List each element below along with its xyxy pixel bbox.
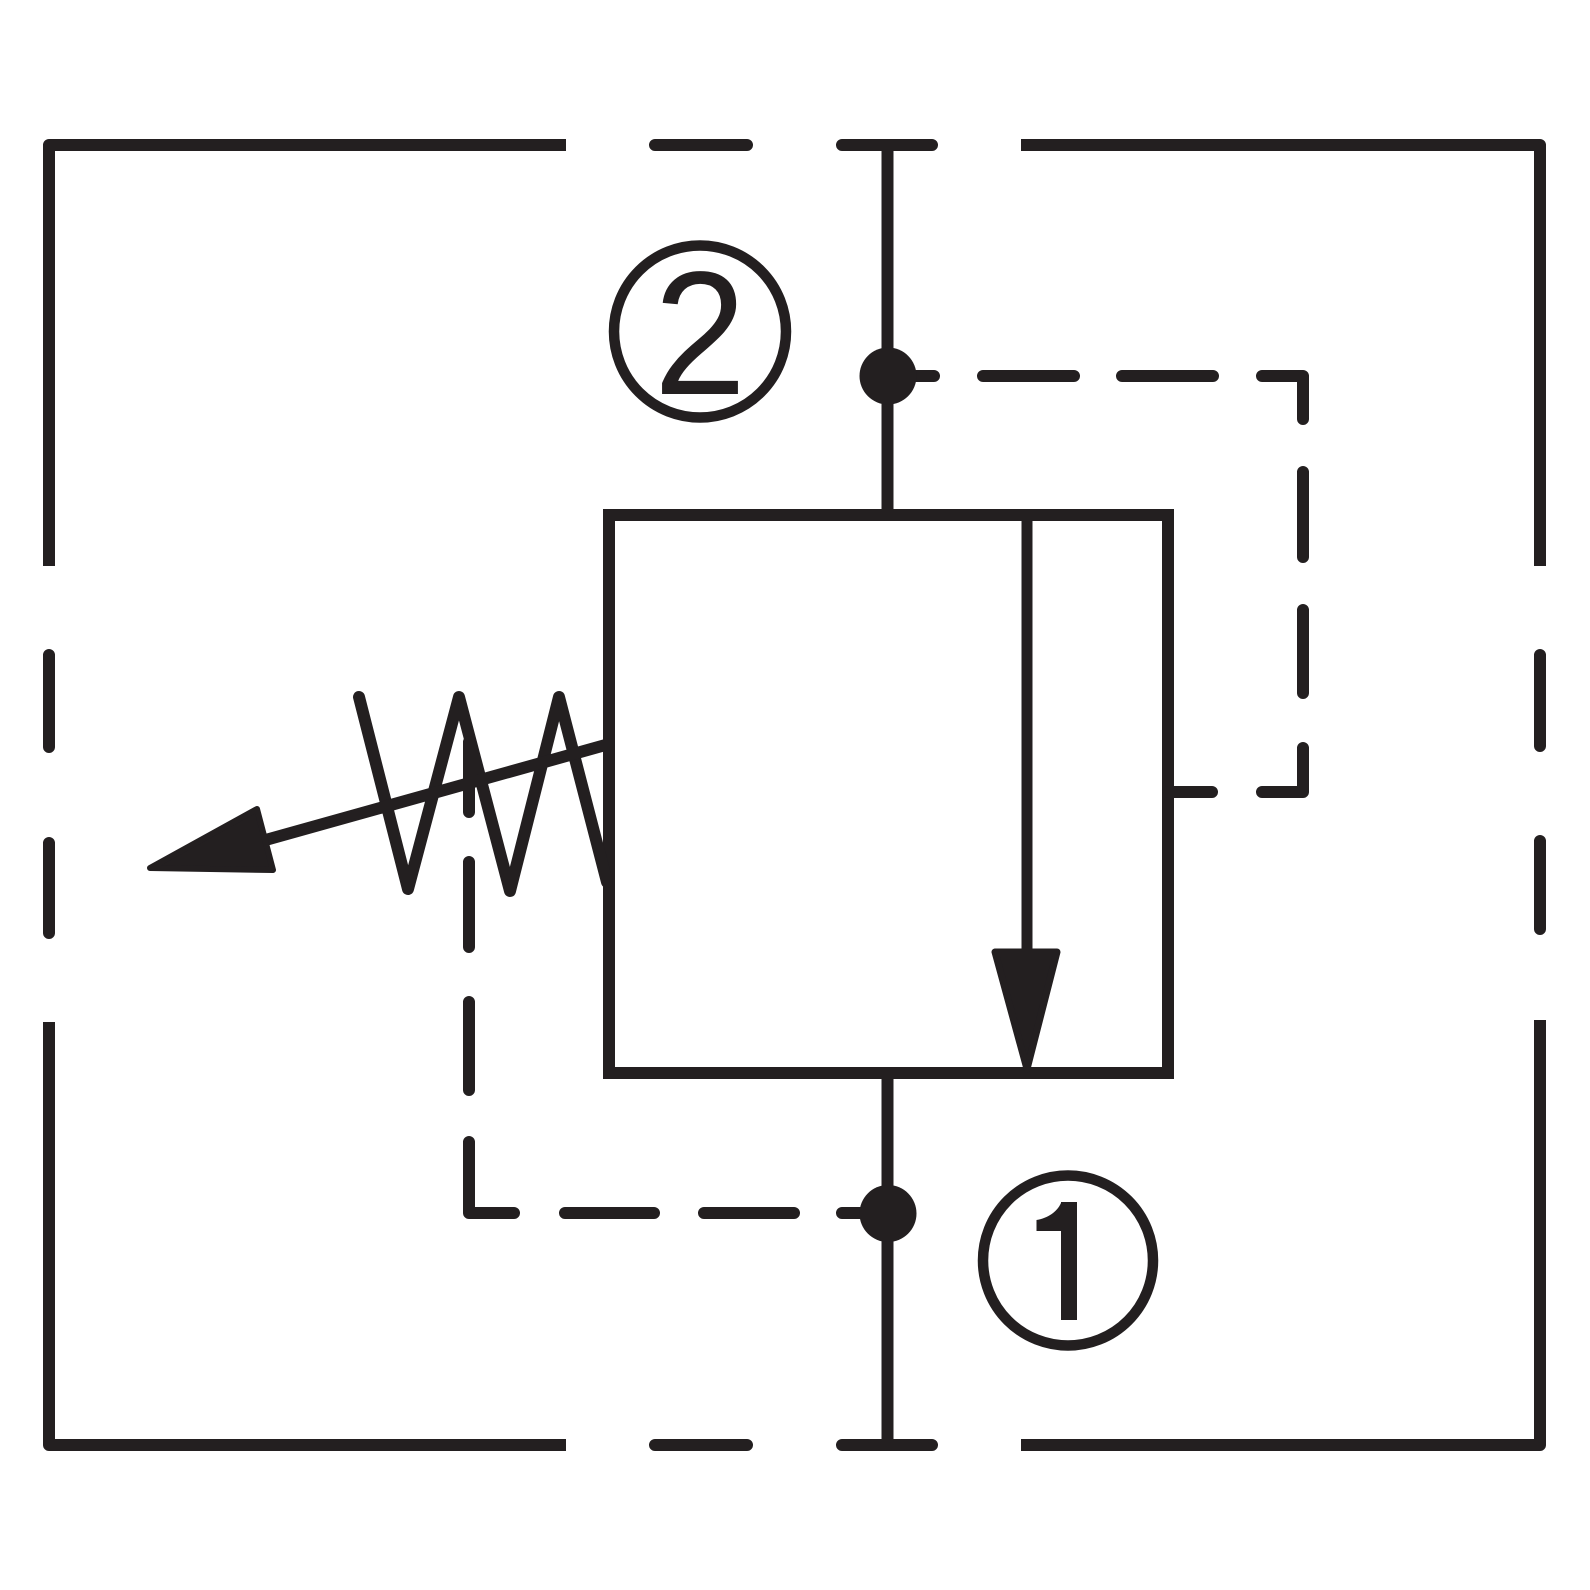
svg-text:2: 2 — [654, 236, 747, 432]
